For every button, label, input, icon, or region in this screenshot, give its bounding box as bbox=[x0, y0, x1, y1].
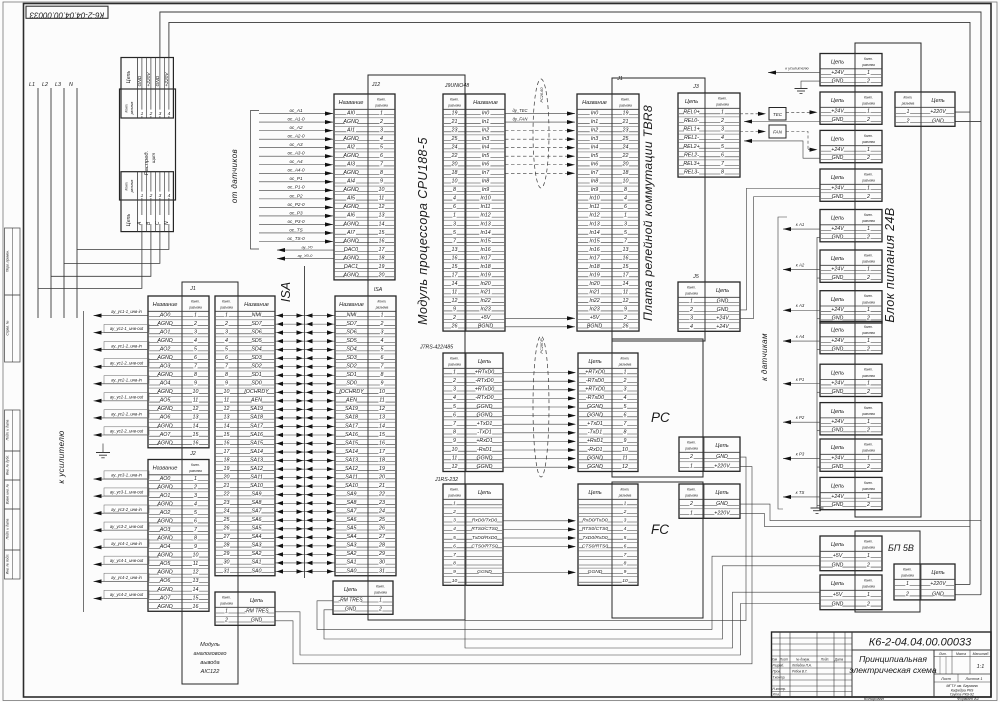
connector БП5В output 1 bbox=[820, 536, 882, 571]
svg-text:2: 2 bbox=[866, 155, 870, 161]
svg-text:REL0+: REL0+ bbox=[683, 109, 699, 115]
svg-text:GND: GND bbox=[155, 75, 161, 86]
svg-text:21: 21 bbox=[223, 483, 230, 489]
wire sensor ос_Р3-0 to J12 pin 14 bbox=[259, 219, 333, 227]
svg-text:AO4: AO4 bbox=[159, 381, 171, 387]
svg-text:21: 21 bbox=[378, 483, 385, 489]
wire ISA row SA17 bbox=[275, 424, 335, 428]
cable screen РС26-60 bbox=[533, 79, 549, 188]
svg-text:+24V: +24V bbox=[831, 419, 844, 425]
frame stamp: Подп. и дата bbox=[5, 410, 21, 451]
svg-text:In20: In20 bbox=[480, 281, 490, 287]
wire ISA row SA15 bbox=[275, 441, 335, 445]
svg-text:SA7: SA7 bbox=[346, 509, 357, 515]
connector PSU24 output 9 bbox=[820, 364, 882, 396]
svg-text:26: 26 bbox=[223, 526, 230, 532]
connector X1 top (Цепь GND +220V) bbox=[121, 58, 173, 119]
wire amplifier ау_ус4-2_инв-in from J2 AIC122 bbox=[94, 573, 150, 583]
svg-text:1: 1 bbox=[867, 553, 870, 559]
wire ISA row SA8 bbox=[275, 501, 335, 505]
svg-text:AI5: AI5 bbox=[346, 196, 355, 202]
svg-text:25: 25 bbox=[622, 136, 629, 142]
wire ISA row SA4 bbox=[275, 535, 335, 539]
wire RS-422 line 10 to PC bbox=[503, 448, 576, 452]
svg-text:к А3: к А3 bbox=[796, 303, 805, 308]
svg-text:SD1: SD1 bbox=[251, 372, 261, 378]
svg-text:+24V: +24V bbox=[716, 324, 729, 330]
svg-text:разъема: разъема bbox=[375, 306, 389, 310]
svg-text:18: 18 bbox=[379, 457, 385, 463]
wire ISA row IOCHRDY bbox=[275, 390, 335, 394]
svg-text:ос_Р1: ос_Р1 bbox=[289, 176, 302, 181]
svg-text:19: 19 bbox=[224, 466, 230, 472]
svg-text:разъема: разъема bbox=[684, 292, 698, 296]
svg-text:Конт.: Конт. bbox=[864, 481, 873, 485]
svg-text:ау_ус1-1_инв-in: ау_ус1-1_инв-in bbox=[111, 309, 142, 314]
svg-text:Инв. № дубл.: Инв. № дубл. bbox=[6, 455, 10, 475]
svg-text:ау_ус3-2_инв-in: ау_ус3-2_инв-in bbox=[111, 507, 142, 512]
svg-text:SA15: SA15 bbox=[345, 440, 358, 446]
wire RS-422 line 5 to PC bbox=[503, 405, 576, 409]
svg-text:-RM TRES: -RM TRES bbox=[338, 598, 363, 604]
svg-text:In19: In19 bbox=[589, 272, 599, 278]
svg-text:+220V: +220V bbox=[164, 72, 170, 87]
svg-text:9: 9 bbox=[194, 544, 197, 550]
svg-text:разъема: разъема bbox=[374, 104, 388, 108]
svg-text:GND: GND bbox=[716, 454, 728, 460]
svg-text:2: 2 bbox=[866, 563, 870, 569]
svg-text:17: 17 bbox=[623, 272, 630, 278]
svg-text:4: 4 bbox=[194, 338, 197, 344]
svg-text:AGND: AGND bbox=[156, 502, 172, 508]
svg-text:AGND: AGND bbox=[342, 119, 358, 125]
svg-text:In3: In3 bbox=[482, 136, 489, 142]
connector PSU24 output 1 bbox=[820, 54, 882, 86]
svg-text:SD3: SD3 bbox=[251, 355, 261, 361]
svg-text:Лист: Лист bbox=[779, 658, 789, 662]
svg-text:AGND: AGND bbox=[342, 187, 358, 193]
svg-text:GND: GND bbox=[251, 618, 263, 624]
svg-text:+TxD1: +TxD1 bbox=[587, 421, 603, 427]
svg-text:10: 10 bbox=[379, 389, 385, 395]
svg-text:9: 9 bbox=[225, 381, 228, 387]
svg-text:In12: In12 bbox=[589, 213, 599, 219]
svg-text:NMI: NMI bbox=[347, 312, 357, 318]
svg-text:11: 11 bbox=[452, 455, 458, 461]
svg-text:1: 1 bbox=[225, 609, 228, 615]
svg-text:GND: GND bbox=[717, 307, 729, 313]
svg-text:AO5: AO5 bbox=[159, 561, 171, 567]
svg-text:SA19: SA19 bbox=[345, 406, 358, 412]
svg-text:ау_ус4-1_инв-out: ау_ус4-1_инв-out bbox=[110, 558, 144, 563]
module box AIC122 bbox=[182, 282, 238, 684]
svg-text:BGND: BGND bbox=[587, 324, 602, 330]
svg-text:AGND: AGND bbox=[342, 136, 358, 142]
svg-text:20: 20 bbox=[378, 474, 385, 480]
svg-text:10: 10 bbox=[623, 179, 629, 185]
svg-text:Цепь: Цепь bbox=[831, 409, 844, 415]
wire amplifier ау_ус1-1_инв-out from J1 AIC122 bbox=[94, 324, 150, 334]
svg-text:разъема: разъема bbox=[861, 374, 875, 378]
connector J1 (TBR8) bbox=[577, 76, 639, 331]
svg-text:CTS0/RTS0: CTS0/RTS0 bbox=[471, 543, 498, 549]
svg-text:4: 4 bbox=[381, 338, 384, 344]
wire ISA row SA1 bbox=[275, 561, 335, 565]
svg-text:SA1: SA1 bbox=[251, 560, 261, 566]
svg-text:ос_ТS: ос_ТS bbox=[289, 227, 303, 232]
svg-text:8: 8 bbox=[624, 561, 627, 567]
svg-text:Т.контр.: Т.контр. bbox=[773, 676, 786, 680]
svg-text:AGND: AGND bbox=[156, 587, 172, 593]
svg-text:18: 18 bbox=[452, 170, 458, 176]
svg-text:CTS0/RTS0: CTS0/RTS0 bbox=[582, 543, 609, 549]
svg-text:AI6: AI6 bbox=[346, 213, 355, 219]
svg-text:3: 3 bbox=[380, 127, 383, 133]
bracket sensors supply group bbox=[778, 217, 787, 509]
svg-text:GND: GND bbox=[717, 298, 729, 304]
svg-text:Конт.: Конт. bbox=[450, 97, 459, 101]
wire J3 REL1+ to FAN (dashed) bbox=[740, 129, 766, 133]
svg-text:AGND: AGND bbox=[156, 604, 172, 610]
svg-text:разъема: разъема bbox=[861, 300, 875, 304]
svg-text:GGND: GGND bbox=[587, 412, 603, 418]
connector PC 220V input bbox=[679, 437, 740, 471]
svg-text:+RxD1: +RxD1 bbox=[476, 438, 492, 444]
svg-text:Конт.: Конт. bbox=[621, 356, 630, 360]
svg-text:Формат А1: Формат А1 bbox=[957, 696, 979, 701]
device box TEC bbox=[769, 108, 786, 121]
wire FAN to PSU24 t3 +24V (dashed) bbox=[786, 132, 818, 152]
svg-text:Модуль процессора CPU188-5: Модуль процессора CPU188-5 bbox=[416, 137, 430, 325]
wire ISA row SD7 bbox=[275, 322, 335, 326]
svg-text:5: 5 bbox=[194, 347, 197, 353]
svg-text:разъема: разъема bbox=[861, 102, 875, 106]
svg-text:2: 2 bbox=[378, 607, 382, 613]
wire amplifier ау_ус1-2_инв-in from J1 AIC122 bbox=[94, 341, 150, 351]
svg-text:1: 1 bbox=[867, 108, 870, 114]
wire RS-422 line 6 to PC bbox=[503, 414, 576, 418]
svg-text:31: 31 bbox=[224, 568, 230, 574]
svg-text:1: 1 bbox=[867, 419, 870, 425]
svg-text:РС29Г/Р: РС29Г/Р bbox=[540, 338, 544, 354]
svg-text:6: 6 bbox=[381, 355, 384, 361]
power supply box Блок питания 24В bbox=[855, 43, 921, 517]
svg-text:GND: GND bbox=[832, 464, 844, 470]
svg-text:Конт.: Конт. bbox=[621, 487, 630, 491]
svg-text:SA2: SA2 bbox=[346, 551, 356, 557]
svg-text:2: 2 bbox=[689, 454, 693, 460]
svg-text:Цепь: Цепь bbox=[716, 288, 729, 294]
svg-text:8: 8 bbox=[381, 372, 384, 378]
svg-text:ос_А4-0: ос_А4-0 bbox=[287, 168, 305, 173]
svg-text:29: 29 bbox=[223, 551, 230, 557]
wire ISA row SA10 bbox=[275, 484, 335, 488]
svg-text:AGND: AGND bbox=[342, 221, 358, 227]
wire PSU24 t3 GND to J3 REL1- bbox=[744, 139, 820, 158]
connector RS-422/485 (PC side) bbox=[578, 353, 638, 472]
wire к А2 from PSU24 output 6 bbox=[783, 263, 820, 272]
svg-text:Масштаб: Масштаб bbox=[973, 652, 989, 656]
label Формат А1 bbox=[957, 696, 979, 701]
connector ISA (AIC122 side) bbox=[215, 296, 275, 576]
connector PSU24 output 3 bbox=[820, 130, 882, 162]
svg-text:2: 2 bbox=[866, 194, 870, 200]
svg-text:PC: PC bbox=[651, 410, 670, 425]
svg-text:разъема: разъема bbox=[618, 363, 632, 367]
svg-text:4: 4 bbox=[168, 111, 171, 117]
svg-text:In14: In14 bbox=[589, 230, 599, 236]
svg-text:+24V: +24V bbox=[716, 315, 729, 321]
svg-text:Принципиальная: Принципиальная bbox=[859, 654, 927, 664]
svg-text:23: 23 bbox=[451, 127, 458, 133]
wire amplifier ау_ус3-1_инв-in from J2 AIC122 bbox=[94, 471, 150, 481]
wire amplifier ау_ус1-1_инв-in from J1 AIC122 bbox=[94, 309, 149, 317]
svg-text:-RTxD0: -RTxD0 bbox=[586, 395, 604, 401]
svg-text:ау_ус1-2_инв-out: ау_ус1-2_инв-out bbox=[110, 360, 144, 365]
connector -RM TRES (AIC122 side) bbox=[215, 592, 275, 625]
svg-text:28: 28 bbox=[223, 543, 230, 549]
svg-text:REL3-: REL3- bbox=[684, 170, 699, 176]
svg-text:17: 17 bbox=[379, 449, 386, 455]
svg-text:Листов 1: Листов 1 bbox=[965, 677, 983, 681]
svg-text:GGND: GGND bbox=[587, 464, 603, 470]
svg-text:2: 2 bbox=[906, 118, 910, 124]
svg-text:GND: GND bbox=[832, 234, 844, 240]
svg-text:к Р1: к Р1 bbox=[796, 377, 805, 382]
svg-text:In23: In23 bbox=[480, 307, 490, 313]
wire 220V GND rail (top and right side) bbox=[160, 12, 981, 595]
svg-text:L2: L2 bbox=[42, 82, 48, 88]
svg-text:FAN: FAN bbox=[773, 130, 783, 135]
wire RS-422 line 12 to PC bbox=[503, 465, 576, 469]
svg-text:In18: In18 bbox=[589, 264, 599, 270]
svg-text:AGND: AGND bbox=[156, 536, 172, 542]
svg-text:11: 11 bbox=[193, 561, 199, 567]
svg-text:In8: In8 bbox=[482, 179, 489, 185]
svg-text:21: 21 bbox=[451, 119, 458, 125]
svg-text:1: 1 bbox=[867, 381, 870, 387]
svg-text:Цепь: Цепь bbox=[831, 98, 844, 104]
connector J9 UNIO48 (CPU) bbox=[443, 83, 505, 331]
svg-text:8: 8 bbox=[453, 561, 456, 567]
label от датчиков bbox=[230, 149, 239, 203]
svg-text:Взам. инв. №: Взам. инв. № bbox=[6, 483, 10, 504]
svg-text:+24V: +24V bbox=[831, 147, 844, 153]
label J7 RS-422/485 bbox=[419, 345, 453, 351]
svg-text:GND: GND bbox=[832, 275, 844, 281]
svg-text:разъема: разъема bbox=[861, 179, 875, 183]
wire J9 In2 to J1 In2 (cable) bbox=[505, 129, 575, 133]
wire amplifier ау_ус2-2_инв-in from J1 AIC122 bbox=[94, 410, 150, 420]
wire RS-422 line 4 to PC bbox=[503, 396, 576, 400]
svg-text:ау_У0: ау_У0 bbox=[301, 244, 313, 249]
svg-text:3: 3 bbox=[194, 329, 197, 335]
svg-text:разъема: разъема bbox=[188, 306, 202, 310]
svg-text:1: 1 bbox=[867, 455, 870, 461]
svg-text:Цепь: Цепь bbox=[126, 214, 132, 227]
svg-text:In2: In2 bbox=[591, 127, 598, 133]
svg-text:Конт.: Конт. bbox=[376, 584, 385, 588]
svg-text:15: 15 bbox=[452, 264, 458, 270]
svg-text:1: 1 bbox=[867, 226, 870, 232]
wire к Р3 from PSU24 output 11 bbox=[783, 452, 820, 461]
svg-text:8: 8 bbox=[380, 170, 383, 176]
svg-text:+24V: +24V bbox=[831, 381, 844, 387]
svg-text:Цепь: Цепь bbox=[931, 570, 944, 576]
svg-text:12: 12 bbox=[623, 298, 629, 304]
svg-text:15: 15 bbox=[623, 264, 629, 270]
svg-text:J1: J1 bbox=[189, 286, 196, 292]
svg-text:J7RS-422/485: J7RS-422/485 bbox=[419, 345, 453, 351]
svg-text:11: 11 bbox=[379, 196, 385, 202]
svg-text:1: 1 bbox=[721, 109, 724, 115]
wire ду_ТЕС (J9 In0 to J1 In0) bbox=[505, 108, 575, 116]
svg-text:11: 11 bbox=[623, 290, 629, 296]
svg-text:2: 2 bbox=[193, 321, 197, 327]
svg-text:GGND: GGND bbox=[477, 569, 492, 575]
svg-text:разъема: разъема bbox=[130, 102, 134, 116]
svg-text:Утв.: Утв. bbox=[773, 693, 780, 697]
svg-text:In13: In13 bbox=[589, 221, 599, 227]
svg-text:2: 2 bbox=[689, 307, 693, 313]
svg-text:In22: In22 bbox=[589, 298, 599, 304]
svg-text:In12: In12 bbox=[480, 213, 490, 219]
frame stamp: Взам. инв. № bbox=[5, 480, 21, 509]
svg-text:4: 4 bbox=[453, 395, 456, 401]
svg-text:GND: GND bbox=[832, 194, 844, 200]
svg-text:к А1: к А1 bbox=[796, 222, 805, 227]
svg-text:8: 8 bbox=[194, 536, 197, 542]
svg-text:ау_У0-0: ау_У0-0 bbox=[298, 253, 313, 258]
ground AIC122 J1 group bbox=[96, 444, 110, 458]
svg-text:23: 23 bbox=[378, 500, 385, 506]
svg-text:24: 24 bbox=[451, 145, 458, 151]
svg-text:Название: Название bbox=[339, 100, 364, 106]
svg-text:SA9: SA9 bbox=[346, 492, 356, 498]
svg-text:15: 15 bbox=[224, 432, 230, 438]
svg-text:ос_А4: ос_А4 bbox=[289, 159, 302, 164]
svg-text:RTS0/CTS0: RTS0/CTS0 bbox=[471, 526, 498, 532]
svg-text:3: 3 bbox=[453, 221, 456, 227]
svg-text:2: 2 bbox=[380, 321, 384, 327]
wire BGND J9 to J1 bbox=[505, 325, 575, 329]
svg-text:15: 15 bbox=[379, 432, 385, 438]
svg-text:24: 24 bbox=[378, 509, 385, 515]
wire PSU24 t4 +24V to J5 pin2 bbox=[740, 188, 820, 310]
svg-text:SD3: SD3 bbox=[346, 355, 356, 361]
svg-text:Конт.: Конт. bbox=[864, 253, 873, 257]
svg-text:14: 14 bbox=[452, 281, 458, 287]
wire GND CPU to БП5В GND bbox=[324, 566, 820, 639]
label к усилителю bbox=[57, 430, 66, 483]
svg-text:2: 2 bbox=[866, 428, 870, 434]
svg-text:Цепь: Цепь bbox=[831, 370, 844, 376]
svg-text:In5: In5 bbox=[482, 153, 489, 159]
svg-text:GGND: GGND bbox=[477, 412, 493, 418]
svg-text:1: 1 bbox=[867, 185, 870, 191]
svg-text:In4: In4 bbox=[591, 145, 598, 151]
svg-text:3: 3 bbox=[453, 518, 456, 524]
connector PSU24 output 5 bbox=[820, 210, 882, 242]
svg-text:Цепь: Цепь bbox=[831, 328, 844, 334]
svg-text:6: 6 bbox=[225, 355, 228, 361]
svg-text:Название: Название bbox=[244, 302, 269, 308]
svg-text:разъема: разъема bbox=[219, 602, 233, 606]
svg-text:SD0: SD0 bbox=[251, 381, 261, 387]
svg-text:SA16: SA16 bbox=[345, 432, 358, 438]
svg-text:+RTxD0: +RTxD0 bbox=[475, 369, 495, 375]
wire ISA row SA5 bbox=[275, 527, 335, 531]
svg-text:AI0: AI0 bbox=[346, 110, 355, 116]
svg-text:вывода: вывода bbox=[200, 660, 219, 666]
svg-text:Цепь: Цепь bbox=[715, 443, 728, 449]
svg-text:+24V: +24V bbox=[831, 185, 844, 191]
device box FAN bbox=[769, 125, 786, 138]
svg-text:Цепь: Цепь bbox=[250, 598, 263, 604]
svg-text:In11: In11 bbox=[481, 204, 491, 210]
svg-text:SA2: SA2 bbox=[251, 551, 261, 557]
svg-text:16: 16 bbox=[379, 440, 385, 446]
svg-text:AO6: AO6 bbox=[159, 415, 171, 421]
svg-text:Конт.: Конт. bbox=[903, 567, 912, 571]
svg-text:FC: FC bbox=[651, 522, 669, 537]
svg-text:+24V: +24V bbox=[831, 70, 844, 76]
svg-text:SA11: SA11 bbox=[250, 474, 263, 480]
svg-text:ос_А2-0: ос_А2-0 bbox=[287, 134, 305, 139]
svg-text:+220V: +220V bbox=[714, 463, 730, 469]
wire GND AIC122 to PC 220V bbox=[275, 467, 752, 664]
svg-text:AGND: AGND bbox=[342, 272, 358, 278]
wire ISA row SD3 bbox=[275, 356, 335, 360]
svg-text:Цепь: Цепь bbox=[478, 490, 491, 496]
svg-text:к Р3: к Р3 bbox=[796, 452, 805, 457]
svg-text:16: 16 bbox=[452, 255, 458, 261]
wire amplifier ау_ус3-2_инв-out from J2 AIC122 bbox=[94, 522, 150, 532]
svg-text:9: 9 bbox=[380, 179, 383, 185]
svg-text:2: 2 bbox=[149, 193, 153, 199]
wire sensor ос_А2 to J12 pin 3 bbox=[259, 125, 333, 133]
svg-text:SA4: SA4 bbox=[346, 534, 356, 540]
svg-text:Модуль: Модуль bbox=[200, 642, 220, 648]
svg-text:In0: In0 bbox=[482, 110, 489, 116]
svg-text:разъема: разъема bbox=[861, 140, 875, 144]
svg-text:In18: In18 bbox=[480, 264, 490, 270]
wire ISA row SA9 bbox=[275, 493, 335, 497]
svg-text:1: 1 bbox=[381, 312, 384, 318]
svg-text:In10: In10 bbox=[589, 196, 599, 202]
svg-text:2: 2 bbox=[452, 509, 456, 515]
svg-text:Изм: Изм bbox=[771, 658, 778, 662]
svg-text:19: 19 bbox=[623, 110, 629, 116]
svg-text:Лебедев П.А.: Лебедев П.А. bbox=[791, 664, 812, 668]
svg-text:Блок питания 24В: Блок питания 24В bbox=[883, 207, 897, 322]
svg-text:N: N bbox=[164, 221, 170, 225]
svg-text:электрическая схема: электрическая схема bbox=[849, 665, 937, 675]
svg-text:20: 20 bbox=[378, 272, 385, 278]
connector PSU24 output 11 bbox=[820, 439, 882, 471]
svg-text:AGND: AGND bbox=[156, 372, 172, 378]
svg-text:-RTxD0: -RTxD0 bbox=[475, 378, 493, 384]
svg-text:Цепь: Цепь bbox=[831, 542, 844, 548]
svg-text:к А2: к А2 bbox=[796, 263, 805, 268]
svg-text:4: 4 bbox=[168, 193, 171, 199]
svg-text:12: 12 bbox=[224, 406, 230, 412]
svg-text:SA3: SA3 bbox=[251, 543, 261, 549]
wire DAC output ау_У0-0 bbox=[277, 253, 334, 261]
label J1 RS-232 bbox=[434, 477, 458, 483]
svg-text:In19: In19 bbox=[480, 272, 490, 278]
svg-text:1: 1 bbox=[867, 147, 870, 153]
